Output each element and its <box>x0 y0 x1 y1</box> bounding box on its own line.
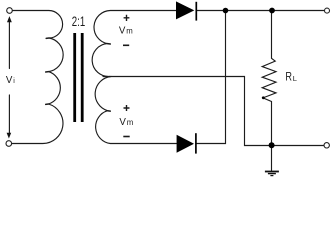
svg-text:i: i <box>13 78 15 85</box>
svg-text:V: V <box>119 117 126 128</box>
svg-text:m: m <box>127 118 134 127</box>
svg-text:R: R <box>285 70 292 84</box>
svg-text:2:1: 2:1 <box>72 14 85 29</box>
svg-text:V: V <box>6 75 13 86</box>
svg-text:V: V <box>119 26 126 37</box>
svg-text:L: L <box>293 74 297 83</box>
svg-text:m: m <box>126 27 133 36</box>
